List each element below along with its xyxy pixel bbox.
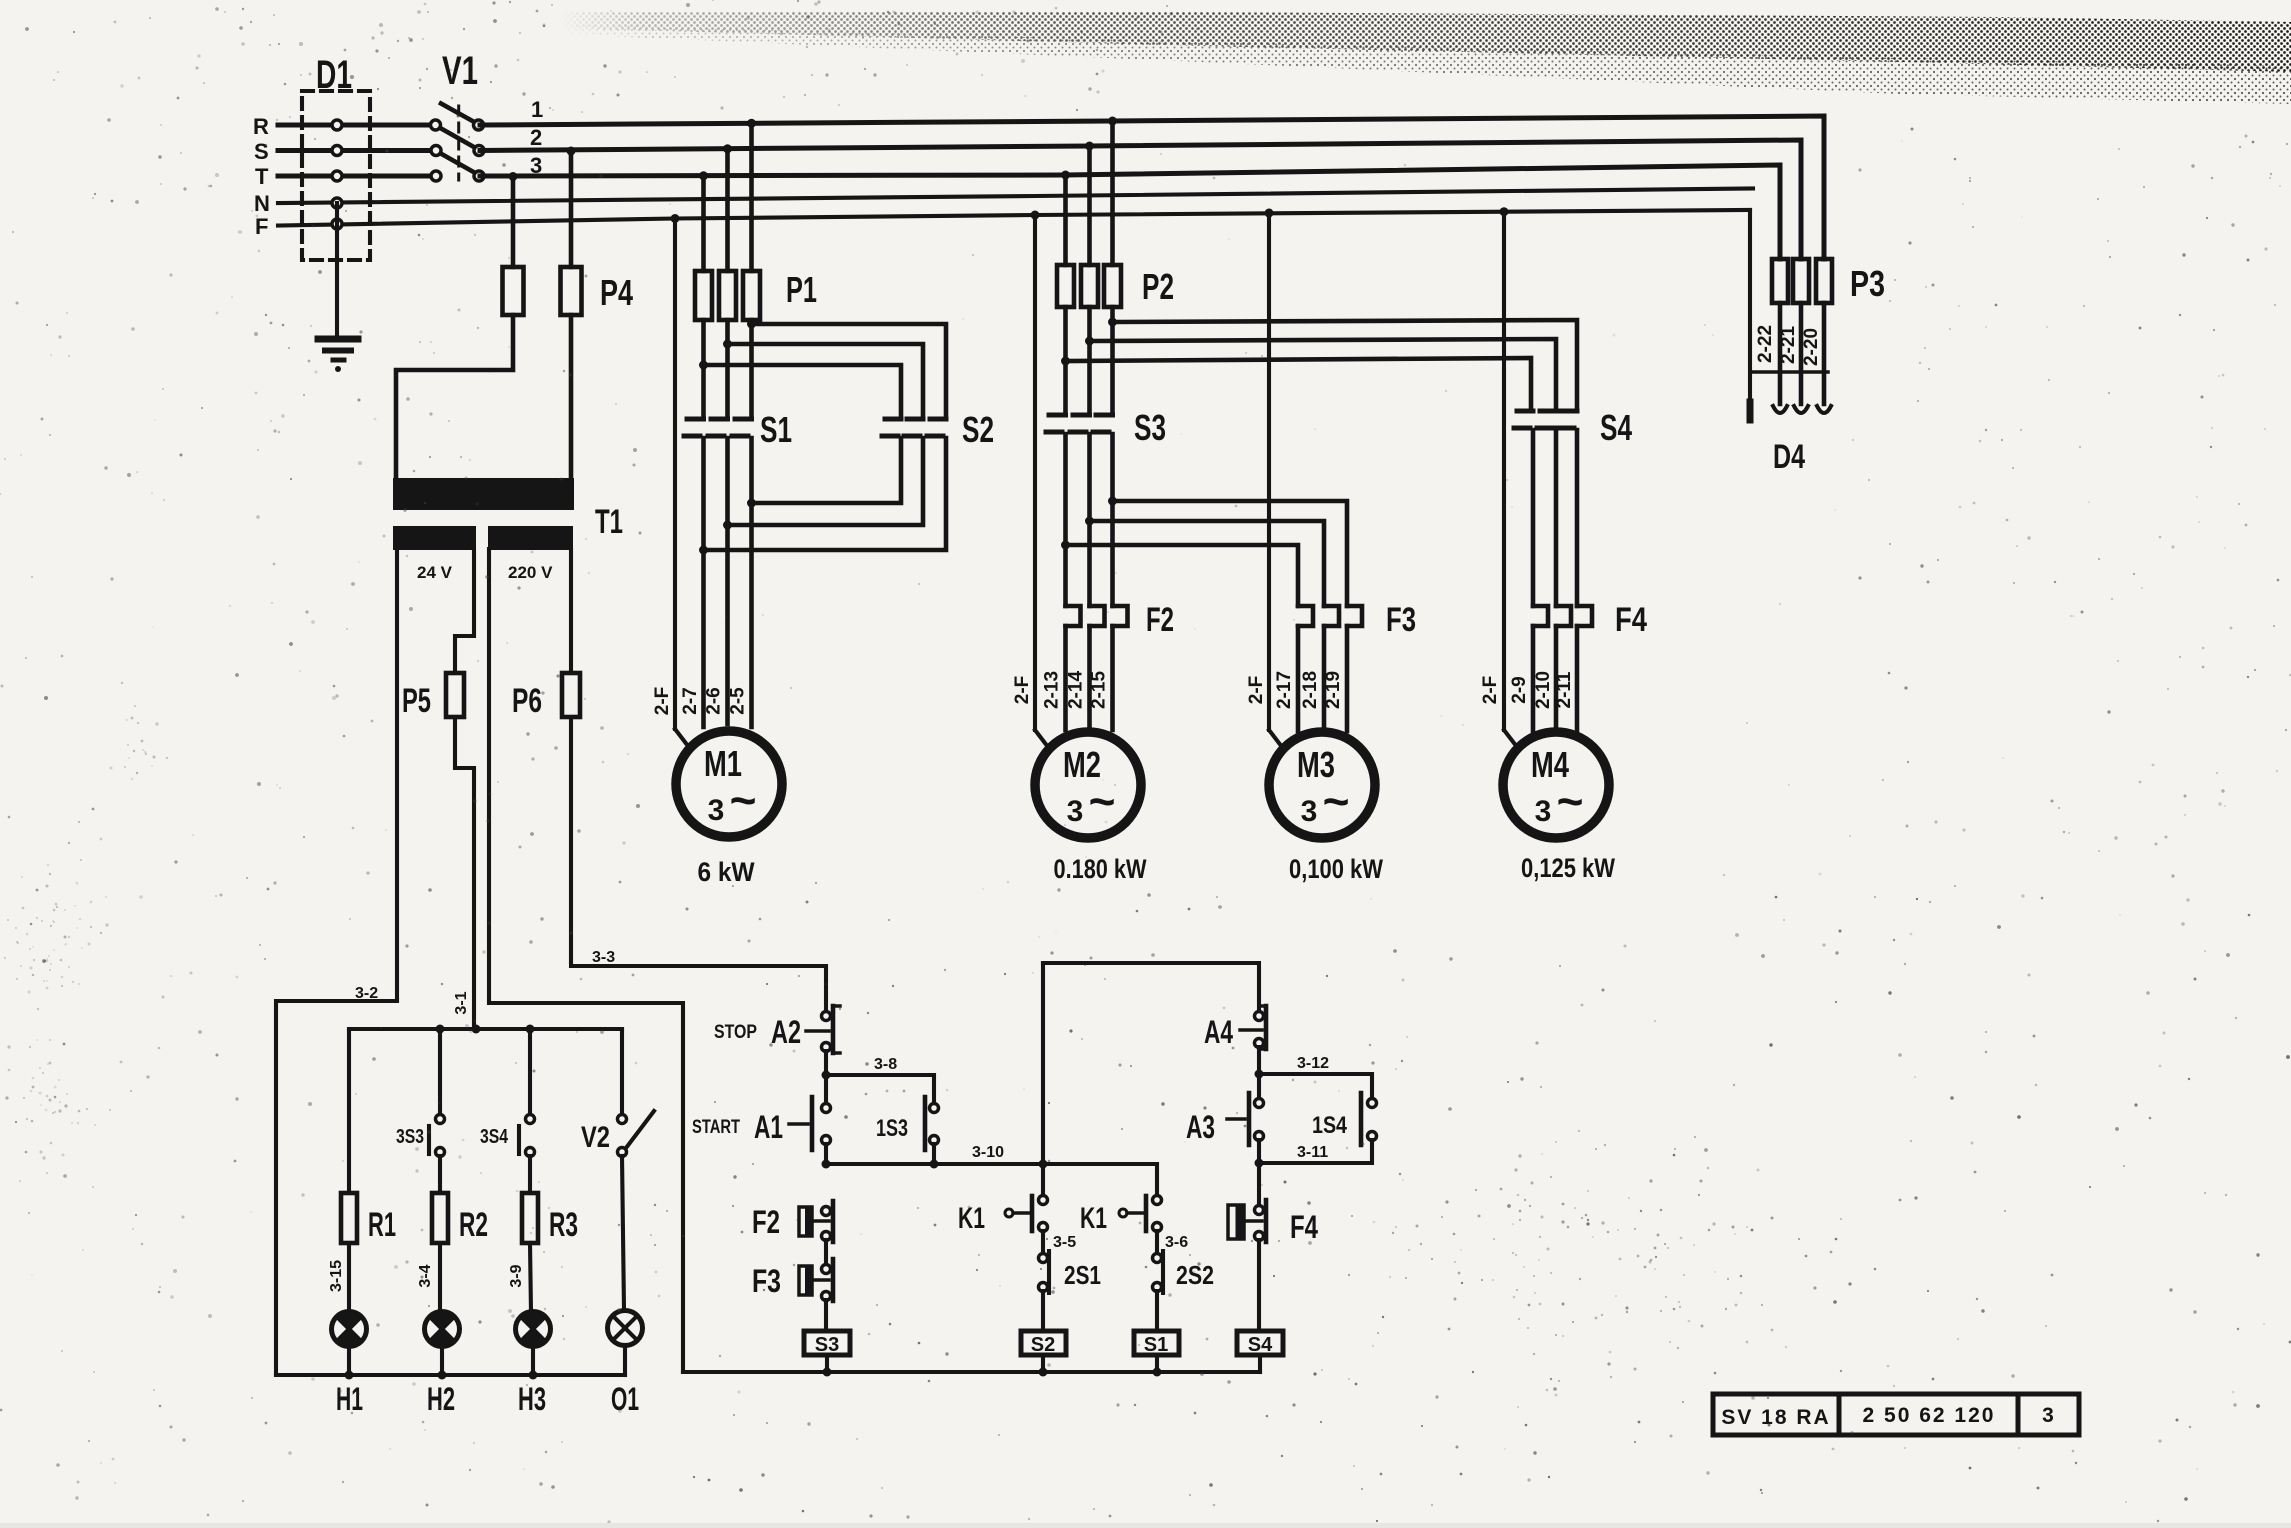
svg-text:3-8: 3-8 [874,1056,897,1073]
wire P2c to switch S3 pole3 [1108,307,1117,415]
wire S3 pole2 out [1085,434,1094,606]
svg-text:2-F: 2-F [1246,676,1267,705]
connector D4 socket a [1773,406,1787,413]
svg-text:24 V: 24 V [417,563,453,582]
wire 2 to fuse P1b [723,144,732,271]
wire R2 to lamp H2 [438,1243,442,1312]
wire 3-12 branch [1259,1074,1372,1099]
label 3S4 [480,1126,509,1148]
wire P2c to switch S4 pole3 [1113,320,1578,411]
switch S4 [1514,411,1577,428]
wire 1 to fuse P2c [1108,117,1117,266]
terminal N [332,198,342,208]
svg-text:A2: A2 [771,1014,801,1050]
label 2-13 [1042,671,1063,709]
svg-text:F3: F3 [752,1263,781,1299]
svg-text:T: T [255,164,269,189]
wire N [278,189,1753,204]
label 3S3 [396,1126,424,1148]
svg-text:START: START [692,1117,740,1138]
svg-text:2-13: 2-13 [1042,671,1063,709]
wire P1a to switch S2 pole 1 [704,365,902,417]
wire H1 to return bus [347,1346,351,1375]
contact F4 [1228,1200,1266,1242]
fuse P3b [1793,259,1809,303]
wire P5 to lamp bus 3-1 [455,717,474,1029]
label 2-20 [1801,328,1822,366]
wire F3 to coil S3 [824,1300,828,1331]
svg-text:2-F: 2-F [1012,676,1033,705]
svg-text:H2: H2 [427,1381,455,1417]
svg-text:~: ~ [1089,775,1116,827]
wire 3 to fuse P2a [1061,171,1070,266]
fuse P2a [1057,265,1074,307]
svg-text:S2: S2 [962,409,994,450]
wire 220V left to control return rail [489,549,683,1372]
svg-text:3: 3 [2042,1404,2054,1427]
label 2-11 [1554,671,1575,708]
wire R [278,123,433,128]
switch S1 [684,419,752,436]
svg-text:F4: F4 [1290,1209,1318,1245]
transformer T1 primary [394,479,573,509]
terminal block D1 [302,91,370,260]
wire S3 pole3 to overload F3c [1113,501,1348,606]
svg-text:R: R [253,114,269,139]
wire A4 to A3 [1255,1047,1264,1099]
switch V1 [431,104,485,182]
connector D4 socket b [1794,406,1808,413]
wire 2-7 to motor M1 [701,550,706,727]
label STOP [714,1022,757,1043]
wire coil S2 to return bus [1041,1355,1045,1372]
overload F2 heaters [1066,606,1128,626]
wire coil S4 to return bus [1258,1355,1262,1372]
label R1 [368,1206,396,1244]
label F [255,214,268,239]
fuse P4a [503,267,524,315]
svg-text:P3: P3 [1850,263,1885,304]
label 3-10 [972,1144,1004,1161]
svg-text:O1: O1 [611,1381,639,1417]
wire S2 pole3 out [704,438,947,550]
svg-text:R1: R1 [368,1206,396,1244]
label 2-19 [1323,671,1344,709]
wire 2S1 to coil S2 [1041,1291,1045,1331]
wire 2-19 to motor M3 [1345,626,1350,731]
lamp H1 [332,1311,367,1346]
wire 2-9 to motor M4 [1531,626,1536,732]
wire lamp return bus [276,1371,625,1380]
svg-text:2-7: 2-7 [680,687,701,714]
switch 3S4 [519,1115,535,1157]
lamp O1 [608,1311,643,1346]
wire 3 [480,165,1780,259]
svg-text:S: S [254,139,269,164]
label K1 b [1080,1202,1107,1235]
label 2 [530,125,542,150]
wire 2 [480,140,1801,259]
label 2-6 [704,687,725,714]
terminal T [332,171,342,181]
wire lamp feed bus [349,1025,622,1034]
label 3-12 [1297,1055,1329,1072]
svg-text:2-F: 2-F [1480,676,1501,705]
label 2-F (M1) [652,687,673,716]
label F3 [1386,601,1416,639]
wire bus 3-10 [822,1160,1158,1197]
wire R3 to lamp H3 [530,1243,531,1312]
wire K1a to 2S1 [1041,1231,1045,1254]
svg-text:2-18: 2-18 [1300,671,1321,709]
svg-text:3-6: 3-6 [1165,1234,1188,1251]
svg-text:S3: S3 [1134,407,1166,448]
label S3 [1134,407,1166,448]
label H2 [427,1381,455,1417]
wire 3S3 to R2 [438,1156,442,1193]
label D1 [316,53,352,97]
svg-text:2-F: 2-F [652,687,673,716]
label 1S3 [876,1115,908,1142]
wire P2b to switch S3 pole2 [1085,307,1094,415]
overload F4 heaters [1533,606,1592,626]
wire S2 pole1 out [752,438,902,503]
wire S1 pole1 out [699,438,708,555]
wire lamp H3 branch [528,1029,532,1114]
switch 3S3 [429,1115,445,1157]
button A4 stop [1240,1006,1266,1049]
svg-text:2-15: 2-15 [1089,671,1110,709]
label P4 [600,272,633,313]
motor M4 [1503,732,1609,838]
label 2-9 [1509,676,1530,703]
coil S3 [804,1331,850,1356]
label 2-10 [1533,671,1554,709]
svg-text:H3: H3 [518,1381,546,1417]
svg-text:D1: D1 [316,53,352,97]
wire F [278,210,1750,226]
label F2 [1146,601,1174,639]
label A1 [754,1109,783,1145]
svg-text:2-10: 2-10 [1533,671,1554,709]
wire S4 pole3 out [1575,430,1580,606]
ground [318,339,358,372]
svg-text:2-14: 2-14 [1066,671,1087,709]
terminal F [332,219,342,229]
wire 220V right to fuse P6 [569,549,573,673]
wire 2 to fuse P2b [1085,142,1094,266]
wire F to connector D4 [1748,210,1752,402]
label H3 [518,1381,546,1417]
svg-text:S3: S3 [815,1334,839,1356]
wire 2S2 to coil S1 [1155,1291,1159,1331]
button A3 start [1227,1093,1264,1145]
wire P2b to switch S4 pole2 [1090,339,1557,411]
resistor R1 [341,1193,357,1243]
svg-text:K1: K1 [958,1202,985,1235]
fuse P6 [562,673,580,717]
svg-text:0,125 kW: 0,125 kW [1521,853,1615,883]
wire 2-5 to motor M1 [749,503,754,727]
fuse P5 [446,673,464,717]
wire S4 pole2 out [1554,430,1559,606]
label F4 [1615,601,1647,639]
label T [255,164,269,189]
switch V2 [618,1111,655,1157]
label 220V [508,563,553,582]
wire S3 pole3 out [1108,434,1117,606]
contact K1 a [1005,1196,1048,1232]
label A2 [771,1014,801,1050]
wire S3 pole2 to overload F3b [1090,521,1325,606]
label N [254,191,270,216]
wire P1b to switch S2 pole 2 [728,344,924,417]
fuse P2b [1081,265,1098,307]
wire 3-8 branch [826,1075,934,1103]
label 2-17 [1274,671,1295,709]
label 3-8 [874,1056,897,1073]
label V2 [581,1121,610,1154]
motor M3 [1269,732,1375,838]
svg-text:2: 2 [530,125,542,150]
wire P3a to connector D4 [1778,303,1783,404]
svg-text:F4: F4 [1615,601,1647,639]
fuse P3c [1816,259,1832,303]
label 3-5 [1053,1234,1076,1251]
wire S3 pole1 out [1061,434,1070,606]
wire D4 tie [1753,370,1828,374]
wire 2-14 to motor M2 [1087,626,1092,726]
svg-text:0,100 kW: 0,100 kW [1289,854,1383,884]
label S4 [1600,407,1632,448]
svg-text:3-11: 3-11 [1297,1144,1328,1161]
label 2-F (M2) [1012,676,1033,705]
motor M1 [676,731,782,837]
svg-text:S4: S4 [1600,407,1632,448]
svg-text:STOP: STOP [714,1022,757,1043]
label P6 [512,682,542,720]
wire control return bus [683,1368,1260,1377]
fuse P1b [719,271,736,320]
svg-text:3-4: 3-4 [417,1264,434,1287]
svg-text:3: 3 [530,153,542,178]
label V1 [442,49,478,93]
wire lamp H1 branch [347,1029,351,1193]
wire 2-15 to motor M2 [1110,626,1115,730]
wire 2-13 to motor M2 [1063,626,1068,730]
wire H2 to return bus [440,1346,444,1375]
wire P1b to switch S1 pole 2 [723,320,732,417]
resistor R3 [522,1193,538,1243]
wire 3S4 to R3 [528,1156,532,1193]
fuse P3a [1772,259,1788,303]
svg-text:1S4: 1S4 [1312,1112,1348,1139]
wire lamp H2 branch [438,1029,442,1114]
coil S4 [1237,1331,1283,1356]
svg-text:K1: K1 [1080,1202,1107,1235]
label 2-21 [1778,326,1799,364]
label R3 [549,1206,578,1244]
limit switch 1S4 [1361,1093,1377,1145]
label P1 [786,269,817,310]
coil S2 [1021,1331,1066,1356]
label 3-3 [592,949,615,966]
svg-text:3: 3 [1535,795,1552,828]
svg-text:3-15: 3-15 [328,1260,345,1292]
wire 2-18 to motor M3 [1322,626,1327,727]
label 3-11 [1297,1144,1328,1161]
label H1 [336,1381,363,1417]
overload F3 heaters [1298,606,1362,626]
svg-text:R3: R3 [549,1206,578,1244]
fuse P4b [561,267,582,315]
svg-text:1S3: 1S3 [876,1115,908,1142]
label F4 (control) [1290,1209,1318,1245]
svg-text:3-5: 3-5 [1053,1234,1076,1251]
contact F2 [799,1201,833,1242]
wire 24V left to lamp return bus [276,549,397,1375]
label A4 [1204,1014,1233,1050]
wire coil S1 to return bus [1155,1355,1159,1372]
limit switch 1S3 [925,1097,939,1150]
svg-text:~: ~ [1323,775,1350,827]
lamp H3 [516,1311,551,1346]
label 3-4 [417,1264,434,1287]
label 0,100 kW [1289,854,1383,884]
transformer T1 secondary 24V [394,527,475,549]
svg-text:T1: T1 [595,503,623,541]
svg-text:3-3: 3-3 [592,949,615,966]
svg-text:R2: R2 [459,1206,488,1244]
wire T [278,174,433,179]
limit switch 2S2 [1153,1251,1164,1293]
svg-text:3-12: 3-12 [1297,1055,1329,1072]
label T1 [595,503,623,541]
label P2 [1142,266,1174,307]
resistor R2 [432,1193,448,1243]
wire 3-3 P6 to stop button [571,717,826,1012]
scan artifact band [560,12,2291,104]
label 2-18 [1300,671,1321,709]
label 1 [531,97,543,122]
svg-text:3: 3 [1301,795,1318,828]
wire 1 [480,116,1824,259]
svg-text:S1: S1 [1144,1334,1168,1356]
wire 3-11 branch [1259,1140,1372,1163]
label D4 [1773,438,1805,476]
label A3 [1186,1109,1215,1145]
label P5 [402,682,431,720]
svg-text:F2: F2 [1146,601,1174,639]
wire P1a to switch S1 pole 1 [699,320,708,417]
wire 2-11 to motor M4 [1575,626,1580,731]
label R2 [459,1206,488,1244]
wire S1 pole2 out [723,438,732,530]
svg-text:3S3: 3S3 [396,1126,424,1148]
label 3 [530,153,542,178]
label 3-15 [328,1260,345,1292]
label 24V [417,563,453,582]
svg-text:2-17: 2-17 [1274,671,1295,709]
svg-text:~: ~ [730,774,757,826]
label P3 [1850,263,1885,304]
label 2-22 [1755,325,1776,363]
svg-text:S1: S1 [760,409,792,450]
label 2-F (M3) [1246,676,1267,705]
svg-text:3: 3 [708,794,725,827]
fuse P2c [1104,265,1121,307]
wire S4 pole1 out [1531,430,1536,606]
transformer T1 secondary 220V [489,527,572,549]
lamp H2 [425,1311,460,1346]
wire S2 pole2 out [728,438,924,525]
svg-text:3-1: 3-1 [453,991,470,1014]
svg-text:1: 1 [531,97,543,122]
button A1 start [789,1097,831,1150]
label START [692,1117,740,1138]
svg-text:D4: D4 [1773,438,1805,476]
svg-text:F3: F3 [1386,601,1416,639]
label 2S1 [1064,1260,1101,1290]
wire 2-F to motor M3 frame [1265,209,1283,748]
svg-text:2-11: 2-11 [1554,671,1575,708]
wire control top link [1043,963,1259,1012]
label 1S4 [1312,1112,1348,1139]
contact F3 [799,1259,833,1301]
label 2-5 [728,687,749,715]
wire 3 to fuse P4a [509,172,518,267]
label 2-14 [1066,671,1087,709]
svg-text:H1: H1 [336,1381,363,1417]
label 0,125 kW [1521,853,1615,883]
svg-text:S4: S4 [1248,1334,1273,1356]
svg-text:P1: P1 [786,269,817,310]
svg-text:~: ~ [1557,775,1584,827]
label 2S2 [1176,1260,1214,1290]
wire 2-F to motor M4 frame [1500,207,1518,747]
svg-text:3-2: 3-2 [355,985,378,1002]
wire 3 to fuse P1a [699,171,708,271]
label 3-6 [1165,1234,1188,1251]
wire S1 pole3 out [747,438,756,508]
label S [254,139,269,164]
wire 2-17 to motor M3 [1296,626,1301,731]
wire A2 to A1 [822,1051,831,1104]
label F3 (control) [752,1263,781,1299]
svg-text:SV 18 RA: SV 18 RA [1721,1406,1830,1429]
svg-text:P6: P6 [512,682,542,720]
wire 1S3 to node 3-10 [932,1144,936,1164]
terminal R [332,120,342,130]
label 0.180 kW [1054,854,1147,884]
svg-text:2-21: 2-21 [1778,326,1799,364]
fuse P1a [695,271,712,320]
wire 2-F to motor M1 frame [671,214,689,746]
label F2 (control) [752,1204,780,1240]
svg-text:F2: F2 [752,1204,780,1240]
svg-text:P5: P5 [402,682,431,720]
switch S2 [882,419,946,436]
title block [1713,1394,2079,1435]
motor M2 [1035,732,1141,838]
svg-text:A4: A4 [1204,1014,1233,1050]
svg-text:220 V: 220 V [508,563,553,582]
wire P2a to switch S3 pole1 [1061,307,1070,415]
label S2 [962,409,994,450]
label 2-F (M4) [1480,676,1501,705]
wire H3 to return bus [531,1346,535,1375]
wire R1 to lamp H1 [347,1243,351,1312]
